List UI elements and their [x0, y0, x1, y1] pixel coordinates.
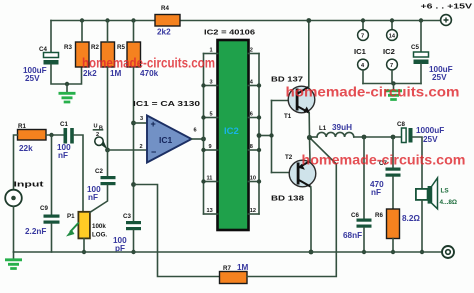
svg-text:IC1 = CA 3130: IC1 = CA 3130 [133, 99, 200, 108]
svg-text:IC1: IC1 [159, 135, 173, 145]
wire pin 13 stub [204, 208, 218, 214]
wire base vertical trunk [271, 101, 273, 173]
junction inverting node [105, 148, 110, 153]
svg-text:2: 2 [250, 48, 253, 54]
wire input terminal to bottom rail [13, 206, 15, 252]
resistor R4 [155, 5, 180, 37]
capacitor C7 [370, 160, 401, 197]
wire C8 to speaker [413, 137, 423, 189]
svg-text:8: 8 [250, 144, 253, 150]
pin circle 4 IC1 [358, 59, 369, 70]
wire pin 9 stub [201, 144, 217, 152]
svg-text:8.2Ω: 8.2Ω [402, 214, 420, 223]
svg-text:homemade-circuits.com: homemade-circuits.com [82, 55, 215, 71]
wire pin 11 stub [201, 176, 217, 184]
svg-text:68nF: 68nF [343, 231, 362, 240]
junction base trunk [269, 133, 273, 137]
svg-text:25V: 25V [25, 74, 40, 83]
svg-text:7: 7 [390, 63, 393, 69]
watermark 3 [302, 152, 466, 168]
svg-text:12: 12 [250, 208, 256, 214]
junction speaker rail [420, 250, 424, 254]
svg-text:LS: LS [441, 188, 450, 195]
junction T1 collector rail [306, 18, 311, 23]
svg-text:L1: L1 [319, 125, 327, 132]
watermark 1 [82, 55, 215, 71]
output terminal 0V [442, 246, 454, 258]
wire T1 collector to rail [308, 21, 310, 87]
svg-text:R4: R4 [161, 5, 169, 12]
svg-text:7: 7 [361, 33, 364, 39]
svg-text:nF: nF [58, 151, 68, 160]
junction non-inverting node [131, 121, 136, 126]
resistor R6 [375, 209, 420, 239]
svg-text:100k: 100k [92, 223, 106, 230]
watermark 2 [286, 84, 460, 100]
capacitor C1 [57, 121, 74, 160]
junction T2 collector rail [309, 250, 314, 255]
label IC1 = CA 3130 [133, 99, 200, 108]
svg-text:14: 14 [389, 33, 396, 39]
svg-text:22k: 22k [19, 144, 33, 153]
junction C3 rail [131, 250, 135, 254]
wire R6 bottom to rail [392, 239, 394, 253]
svg-text:nF: nF [88, 193, 98, 202]
junction C6 rail [362, 250, 366, 254]
svg-text:IC2: IC2 [224, 126, 239, 137]
wire C1 to pot P1 top [74, 135, 83, 212]
svg-text:C9: C9 [40, 205, 48, 212]
junction rail R2 [105, 18, 109, 22]
wire P1 bottom to rail [83, 238, 85, 252]
capacitor C2 [87, 168, 116, 202]
wire C9 bottom to rail [51, 224, 53, 252]
svg-text:homemade-circuits.com: homemade-circuits.com [286, 84, 460, 100]
junction P1 rail [82, 250, 86, 254]
junction output to bus [201, 137, 206, 142]
svg-text:2k2: 2k2 [157, 28, 171, 37]
wire T1 emitter to output node [308, 113, 310, 138]
svg-text:−: − [151, 147, 156, 157]
capacitor C8 [397, 121, 444, 144]
wire IC1 ground stub [362, 70, 364, 84]
wire pin 10 stub [249, 176, 262, 184]
capacitor C5 [411, 44, 453, 82]
junction R6 rail [391, 250, 395, 254]
svg-text:C2: C2 [95, 168, 103, 175]
inductor L1 [310, 123, 354, 137]
svg-text:C5: C5 [411, 44, 419, 51]
wire supply ground bar [363, 83, 421, 85]
svg-text:1: 1 [210, 48, 213, 54]
wire T1 base lead [272, 100, 296, 102]
wire R2 bottom down to inverting node [107, 67, 109, 150]
svg-text:IC1: IC1 [354, 47, 367, 56]
svg-text:U: U [94, 124, 98, 130]
wire R7 right up to output node diagonal [247, 138, 336, 277]
wire speaker bottom to rail [421, 200, 423, 252]
wire C5 bottom [420, 64, 422, 84]
svg-text:T1: T1 [284, 113, 292, 120]
wire pin 2 stub [249, 48, 260, 54]
svg-text:1M: 1M [237, 263, 249, 272]
svg-text:C6: C6 [351, 212, 359, 219]
junction output node [307, 135, 312, 140]
svg-text:R7: R7 [223, 265, 231, 272]
resistor R3 [64, 21, 97, 79]
junction C5 tap [419, 18, 423, 22]
svg-text:nF: nF [371, 188, 381, 197]
wire output bus to transistor bases [259, 135, 272, 137]
wire R5 bottom down to non-inverting node and C3 [133, 67, 135, 221]
svg-text:R5: R5 [117, 44, 125, 51]
wire pin 1 stub [204, 48, 218, 54]
wire C7 to R6 [392, 177, 394, 209]
wire feedback jog to R7 run [134, 185, 220, 277]
wire non-inverting node to op-amp pin 3 [134, 122, 148, 124]
wire C9 branch down [51, 135, 53, 215]
svg-text:3: 3 [210, 80, 213, 86]
input terminal [5, 180, 44, 207]
svg-text:R6: R6 [375, 212, 383, 219]
wire C7 branch [392, 137, 394, 168]
wire C4 branch from rail [50, 21, 52, 53]
wire L1 to C8 [354, 136, 402, 138]
svg-text:C4: C4 [39, 46, 47, 53]
svg-text:homemade-circuits.com: homemade-circuits.com [302, 152, 466, 168]
wire R1 to C1 [46, 134, 64, 136]
junction bus tap [257, 133, 262, 138]
speaker LS [416, 178, 457, 209]
wire C5 branch [420, 21, 422, 53]
wire inverting node down to C2 [107, 150, 109, 176]
potentiometer P1 [67, 212, 107, 239]
svg-text:IC2 = 40106: IC2 = 40106 [204, 28, 255, 37]
wire C6 bottom to rail [363, 228, 365, 252]
svg-text:BD 137: BD 137 [271, 75, 303, 84]
node UB/2 label and probe [94, 124, 108, 150]
junction IC2 supply [390, 18, 394, 22]
pin circle 14 IC2 [387, 30, 398, 41]
svg-text:11: 11 [207, 176, 213, 182]
ground symbol left under C4/R3 [59, 84, 76, 102]
wire pin 6 stub [249, 112, 262, 120]
supply terminal +V [421, 2, 474, 26]
wire pin 5 stub [201, 112, 217, 120]
svg-text:LOG.: LOG. [92, 232, 107, 239]
IC2 40106 body [218, 40, 249, 230]
wire pin 8 stub [249, 144, 262, 152]
svg-text:2: 2 [140, 144, 143, 150]
svg-text:R1: R1 [18, 123, 26, 130]
wire inverting node to op-amp pin 2 [108, 149, 148, 151]
label IC2 [383, 47, 395, 56]
wire pin 3 stub [201, 80, 217, 88]
svg-text:9: 9 [209, 144, 212, 150]
resistor R2 [91, 21, 122, 79]
svg-text:10: 10 [250, 176, 256, 182]
svg-text:C1: C1 [60, 121, 68, 128]
wire top supply rail left of R4 [51, 20, 155, 22]
wire IC2 left input bus [203, 54, 205, 215]
junction rail R3 [80, 18, 84, 22]
capacitor C4 [23, 46, 59, 83]
svg-text:1000uF: 1000uF [416, 126, 444, 135]
svg-text:Input: Input [14, 180, 45, 189]
junction supply ground [391, 81, 395, 85]
wire T2 emitter to output node [309, 138, 312, 162]
wire C3 bottom to rail [133, 230, 135, 252]
ground symbol at input [5, 252, 22, 269]
svg-text:39uH: 39uH [332, 123, 352, 132]
label IC2 = 40106 [204, 28, 255, 37]
resistor R7 [220, 263, 249, 284]
resistor R1 [18, 123, 47, 153]
wire T2 base lead [272, 172, 297, 174]
capacitor C6 [343, 212, 372, 240]
wire top supply rail right of R4 [180, 20, 441, 22]
wire C2 bottom to pot wiper corner [90, 185, 108, 212]
wire bottom 0V rail [14, 251, 442, 253]
junction C9 tap [49, 133, 53, 137]
svg-text:R3: R3 [64, 44, 72, 51]
transistor Q1 BD137 T1 [271, 75, 315, 121]
wire IC2 ground stub [391, 70, 393, 84]
op-amp U1 IC1 [140, 116, 197, 163]
wire IC2 right output bus [258, 54, 260, 215]
svg-text:6: 6 [194, 128, 197, 134]
junction IC1 supply [361, 18, 365, 22]
wire IC1 supply stub [362, 21, 364, 30]
wire C6 branch [363, 137, 365, 219]
svg-text:3: 3 [140, 116, 143, 122]
junction rail R5 [131, 18, 135, 22]
label IC1 [354, 47, 367, 56]
svg-text:13: 13 [207, 208, 213, 214]
ground symbol supply [385, 84, 402, 100]
svg-text:6: 6 [250, 112, 253, 118]
wire op-amp output to IC2 input bus [192, 138, 204, 140]
svg-text:2: 2 [96, 132, 99, 138]
svg-text:+6 . . +15V: +6 . . +15V [421, 2, 474, 11]
pin circle 7 IC2 [387, 59, 398, 70]
wire pin 4 stub [249, 80, 262, 88]
svg-text:P1: P1 [67, 213, 75, 220]
wire R1 left to input terminal [14, 135, 18, 190]
junction C6 tap [362, 135, 367, 140]
resistor R5 [117, 21, 159, 79]
svg-text:2.2nF: 2.2nF [25, 227, 46, 236]
capacitor C9 [25, 205, 60, 236]
svg-text:25V: 25V [432, 73, 447, 82]
wire T2 collector to rail [310, 187, 312, 252]
svg-text:C8: C8 [397, 121, 405, 128]
svg-text:IC2: IC2 [383, 47, 395, 56]
svg-text:+: + [151, 119, 156, 129]
transistor Q2 BD138 T2 [271, 154, 316, 203]
wire C4 bottom to ground jog [51, 65, 82, 85]
svg-text:5: 5 [210, 112, 213, 118]
junction ground tap [65, 82, 69, 86]
pin circle 7 IC1 [358, 30, 369, 41]
svg-text:C3: C3 [123, 213, 131, 220]
wire pin 12 stub [249, 208, 260, 214]
svg-text:25V: 25V [423, 135, 438, 144]
junction C7 tap [391, 135, 396, 140]
capacitor C3 [113, 213, 141, 253]
svg-text:R2: R2 [91, 44, 99, 51]
svg-text:BD 138: BD 138 [271, 194, 304, 203]
wire IC2 supply stub [391, 21, 393, 30]
svg-text:4...8Ω: 4...8Ω [440, 199, 458, 206]
svg-text:T2: T2 [285, 154, 293, 161]
wiper arrow P1 [66, 223, 79, 237]
junction feedback jog [131, 182, 136, 187]
